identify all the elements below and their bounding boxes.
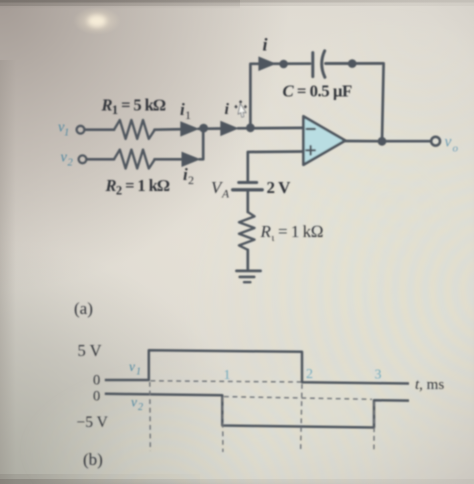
svg-text:C = 0.5 µF: C = 0.5 µF (283, 81, 352, 100)
svg-text:2: 2 (188, 173, 194, 187)
svg-text:ι: ι (272, 233, 275, 244)
svg-text:2: 2 (138, 402, 143, 413)
svg-text:2: 2 (68, 158, 74, 169)
svg-text:1: 1 (136, 367, 141, 378)
svg-text:= 1 kΩ: = 1 kΩ (278, 222, 323, 241)
svg-text:2 V: 2 V (267, 178, 292, 197)
svg-text:v: v (129, 359, 135, 374)
svg-text:1: 1 (224, 368, 231, 383)
svg-text:1: 1 (64, 128, 69, 139)
svg-text:2: 2 (306, 367, 313, 382)
svg-text:t, ms: t, ms (415, 377, 444, 393)
svg-text:5 V: 5 V (78, 341, 102, 360)
svg-text:(b): (b) (83, 450, 103, 469)
svg-text:R2 = 1 kΩ: R2 = 1 kΩ (105, 176, 171, 198)
svg-text:v: v (445, 134, 452, 151)
svg-text:(a): (a) (74, 299, 93, 318)
svg-text:v: v (61, 150, 68, 166)
svg-text:A: A (221, 189, 230, 201)
svg-text:R1 = 5 kΩ: R1 = 5 kΩ (101, 95, 167, 117)
svg-text:R: R (260, 222, 272, 241)
svg-text:0: 0 (93, 373, 100, 389)
svg-text:o: o (453, 143, 459, 155)
svg-text:1: 1 (185, 108, 191, 122)
svg-text:−5 V: −5 V (77, 414, 109, 431)
svg-text:i: i (225, 101, 230, 118)
svg-text:v: v (131, 395, 137, 410)
svg-text:0: 0 (93, 389, 100, 405)
svg-text:i: i (263, 35, 268, 55)
svg-text:3: 3 (375, 368, 382, 383)
